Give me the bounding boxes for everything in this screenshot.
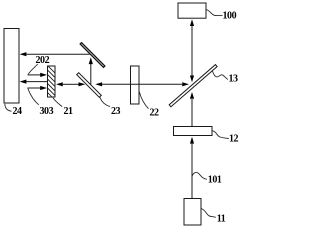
svg-text:22: 22 bbox=[150, 108, 160, 119]
label 22 bbox=[139, 92, 159, 119]
label 24 bbox=[5, 104, 22, 117]
svg-text:24: 24 bbox=[13, 106, 23, 117]
source box 11 bbox=[184, 199, 201, 226]
label 303 bbox=[28, 88, 54, 117]
svg-text:13: 13 bbox=[229, 74, 239, 85]
wire: element 12 to splitter bbox=[190, 92, 194, 126]
svg-text:21: 21 bbox=[64, 106, 74, 117]
label 21 bbox=[53, 98, 73, 117]
wire: source 11 to element 12 bbox=[190, 137, 194, 199]
label 101 bbox=[192, 172, 222, 185]
label 23 bbox=[100, 97, 121, 117]
svg-text:101: 101 bbox=[208, 175, 222, 186]
svg-text:23: 23 bbox=[111, 106, 121, 117]
beam mirror 23 to splitter 13 (double headed) bbox=[95, 82, 189, 86]
wire: beam between mirrors bbox=[89, 57, 93, 84]
box 100 bbox=[178, 3, 206, 18]
arrow 21 to 24 middle bbox=[20, 80, 48, 84]
arrow 24 to 21 lower (beam 303) bbox=[28, 86, 48, 90]
wire: splitter to box 100 (double headed vertical) bbox=[190, 19, 194, 82]
beam splitter 13 bbox=[169, 65, 217, 107]
svg-text:303: 303 bbox=[40, 106, 54, 117]
label 13 bbox=[213, 71, 239, 85]
label 11 bbox=[201, 209, 226, 225]
svg-text:11: 11 bbox=[217, 214, 226, 225]
label 12 bbox=[212, 131, 238, 145]
upper fold mirror bbox=[80, 43, 105, 68]
beam 21 to mirror 23 (double headed) bbox=[56, 82, 85, 86]
hatched element 21 bbox=[40, 58, 62, 130]
wire: beam from upper mirror into 24 bbox=[20, 52, 90, 56]
label 202 bbox=[28, 55, 49, 74]
fold mirror 23 bbox=[77, 73, 102, 98]
element 22 bbox=[131, 66, 140, 104]
arrow 24 to 21 upper (beam 202) bbox=[28, 73, 48, 77]
svg-text:100: 100 bbox=[223, 10, 237, 21]
detector box 24 bbox=[4, 29, 19, 104]
element 12 bbox=[174, 127, 213, 136]
label 100 bbox=[206, 10, 236, 22]
svg-text:12: 12 bbox=[229, 133, 239, 144]
